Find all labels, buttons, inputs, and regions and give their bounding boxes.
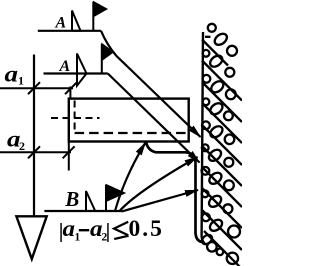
bent anchor plate (band with rounded corners) (146, 142, 202, 243)
weld symbol A2: flag pole (101, 44, 103, 74)
svg-text:1: 1 (18, 74, 24, 88)
weld symbol A2: leader with arrow (108, 74, 200, 163)
svg-text:A: A (59, 58, 71, 75)
minus sign (79, 229, 89, 231)
extension line a2 (plate edge extended) (68, 142, 70, 171)
plumb bob (triangle) (16, 216, 46, 259)
weld symbol A1: reference line (38, 30, 101, 32)
plumb line (33, 55, 35, 217)
hidden edge (dashed vertical) (74, 101, 76, 133)
weld symbol B: flag pole (105, 185, 107, 211)
weld symbol B: flag (106, 185, 125, 202)
dimension line a2 (0, 151, 71, 153)
B fan arrow to band vertical (122, 190, 199, 212)
tick at plate edge (a1) (65, 82, 77, 94)
tick at plate edge (a2) (63, 146, 75, 158)
weld symbol A2: reference line (44, 72, 108, 74)
wall face line (202, 32, 206, 245)
less-than-or-equal sign (slanted) (114, 222, 128, 235)
B fan arrow to band corner (120, 157, 198, 211)
svg-text:|a1a2|0.5: |a1a2|0.5 (59, 216, 164, 244)
extension line a1 (69, 87, 71, 100)
center line (dashed) (51, 117, 100, 119)
svg-text:B: B (64, 187, 79, 211)
weld symbol A1: field weld flag pole (92, 2, 94, 31)
svg-text:a: a (5, 62, 19, 87)
weld symbol B: reference line (44, 210, 121, 212)
wall hatch pebbles (circles and ellipses) (200, 24, 240, 264)
tick at plumb line (a1) (28, 82, 40, 94)
weld symbol A1: leader with arrow (101, 31, 201, 137)
weld symbol B: fillet triangle (86, 191, 95, 211)
svg-text:2: 2 (19, 139, 25, 153)
weld symbol A2: flag (102, 44, 114, 61)
hidden edge (dashed horizontal) (75, 132, 189, 134)
svg-text:A: A (55, 15, 67, 32)
dimension line a1 (0, 87, 73, 89)
weld symbol A1: fillet triangle (72, 11, 81, 31)
weld symbol A2: lower fillet triangle (77, 74, 87, 86)
wall hatch diagonal lines (202, 40, 242, 266)
tick at plumb line (a2) (28, 146, 40, 158)
B fan arrow to plate bottom (115, 143, 146, 212)
weld symbol A1: flag (93, 2, 107, 17)
plate (embedded steel plate, side view) (69, 99, 189, 142)
weld symbol A2: upper fillet triangle (77, 54, 87, 74)
